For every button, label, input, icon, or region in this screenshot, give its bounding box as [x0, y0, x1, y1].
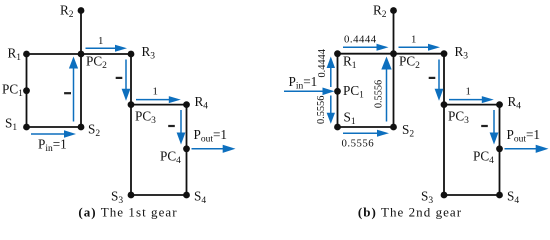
- wire S3 to S4 horizontal: [131, 194, 187, 196]
- node PC3 junction (b): [441, 101, 448, 108]
- svg-text:Pin=1: Pin=1: [38, 137, 67, 155]
- arrow 1 PC2 to R3 (a): [86, 47, 119, 49]
- svg-text:0.4444: 0.4444: [344, 34, 377, 46]
- node S1: [23, 124, 30, 131]
- svg-text:0.4444: 0.4444: [317, 49, 328, 77]
- minus (a) R3 seg: [116, 77, 123, 79]
- node R2: [78, 7, 85, 14]
- svg-text:Pin=1: Pin=1: [289, 74, 318, 92]
- node S2: [78, 124, 85, 131]
- node R3: [128, 51, 135, 58]
- arrow R4 to PC4 down (b): [493, 110, 495, 135]
- node R4 (b): [496, 101, 503, 108]
- arrow PC1 to S1 down (b): [330, 96, 332, 116]
- svg-text:1: 1: [466, 86, 472, 98]
- arrow Pin (b): [284, 90, 325, 92]
- svg-text:1: 1: [98, 35, 104, 47]
- wire R2 to S2 vertical (b): [393, 11, 395, 128]
- svg-text:0.5556: 0.5556: [374, 80, 385, 108]
- node S1 (b): [334, 124, 341, 131]
- node S4: [183, 192, 190, 199]
- arrow 0.4444 R1 to PC2 (b): [343, 46, 380, 48]
- wire PC3 to R4 horizontal: [131, 104, 187, 106]
- arrow Pin (a): [31, 133, 67, 135]
- node PC2 junction: [78, 51, 85, 58]
- node PC3 junction: [128, 101, 135, 108]
- arrow PC1 to R1 up (b): [330, 66, 332, 88]
- arrow Pout (b): [505, 148, 539, 150]
- wire R3 to S3 vertical: [130, 54, 132, 195]
- svg-text:(b) The 2nd gear: (b) The 2nd gear: [358, 205, 462, 220]
- arrow 1 PC2 to R3 (b): [399, 46, 432, 48]
- wire R4 to S4 vertical: [186, 105, 188, 195]
- minus (b) R4 seg: [481, 125, 488, 127]
- node R1: [23, 51, 30, 58]
- wire S1 to S2 horizontal (b): [338, 126, 395, 128]
- svg-text:1: 1: [411, 34, 417, 46]
- node R1 junction (b): [334, 50, 341, 57]
- arrow R3 to PC3 down (a): [125, 60, 127, 92]
- arrow R4 to PC4 down (a): [180, 110, 182, 135]
- node R2 (b): [390, 7, 397, 14]
- svg-text:(a) The 1st gear: (a) The 1st gear: [78, 205, 177, 220]
- svg-text:0.5556: 0.5556: [316, 96, 327, 124]
- arrow 1 PC3 to R4 (a): [136, 99, 172, 101]
- wire S1 to S2 horizontal: [27, 126, 82, 128]
- arrow 0.5556 S1 to S2 (b): [343, 132, 380, 134]
- node PC1 (b): [334, 88, 341, 95]
- wire R1 to S1 vertical: [26, 54, 28, 127]
- node PC4 junction: [183, 145, 190, 152]
- wire R1 to S1 vertical (b): [337, 54, 339, 127]
- wire R1 to R3 horizontal (b): [338, 53, 445, 55]
- minus (a) R4 seg: [168, 125, 175, 127]
- minus for up arrow (a): [64, 92, 71, 94]
- node S3: [128, 192, 135, 199]
- arrow S2 to PC2 up (a): [73, 66, 75, 122]
- node S4 (b): [496, 192, 503, 199]
- node PC4 junction (b): [496, 145, 503, 152]
- arrow R3 to PC3 down (b): [438, 60, 440, 92]
- wire R4 to S4 vertical (b): [499, 105, 501, 195]
- minus (b) R3 seg: [429, 77, 436, 79]
- node PC2 junction (b): [390, 50, 397, 57]
- svg-text:0.5556: 0.5556: [342, 138, 375, 150]
- svg-text:1: 1: [153, 86, 159, 98]
- arrow S2 to PC2 up (b): [386, 67, 388, 122]
- wire R3 to S3 vertical (b): [443, 54, 445, 195]
- wire R2 to S2 vertical: [80, 11, 82, 128]
- wire R1 to R3 horizontal: [27, 53, 132, 55]
- wire PC3 to R4 horizontal (b): [444, 104, 500, 106]
- node S3 (b): [441, 192, 448, 199]
- node R3 (b): [441, 50, 448, 57]
- arrow 1 PC3 to R4 (b): [449, 99, 485, 101]
- wire S3 to S4 horizontal (b): [444, 194, 500, 196]
- node R4: [183, 101, 190, 108]
- arrow Pout (a): [192, 148, 226, 150]
- node S2 (b): [390, 124, 397, 131]
- node PC1: [23, 87, 30, 94]
